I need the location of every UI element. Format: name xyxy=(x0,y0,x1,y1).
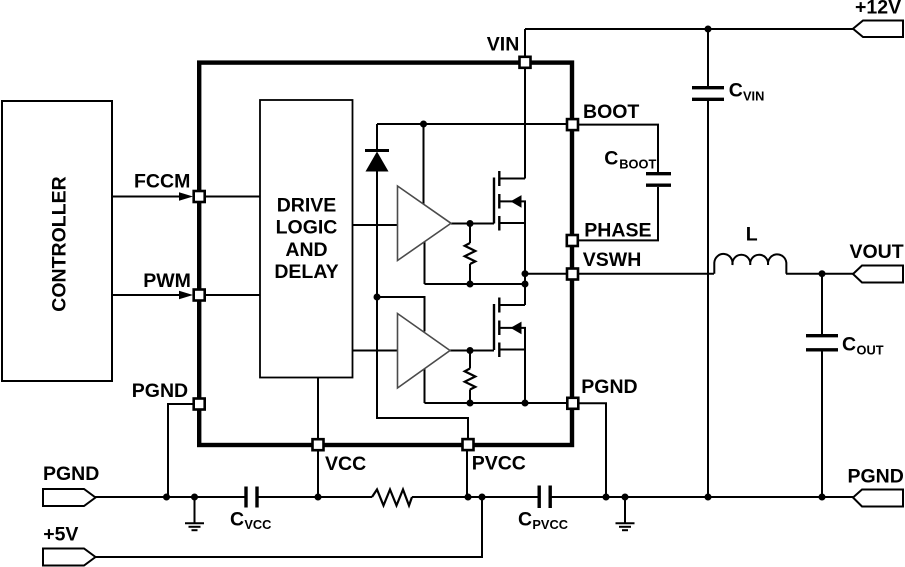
svg-text:VIN: VIN xyxy=(743,88,764,103)
svg-text:DELAY: DELAY xyxy=(274,261,338,283)
svg-text:L: L xyxy=(746,223,758,245)
svg-text:PGND: PGND xyxy=(848,466,904,488)
svg-text:VSWH: VSWH xyxy=(583,249,642,271)
svg-text:C: C xyxy=(842,334,856,356)
svg-text:OUT: OUT xyxy=(857,342,884,357)
svg-text:PWM: PWM xyxy=(143,270,191,292)
svg-text:CONTROLLER: CONTROLLER xyxy=(49,176,71,311)
svg-text:PGND: PGND xyxy=(581,376,637,398)
svg-text:DRIVE: DRIVE xyxy=(277,194,337,216)
svg-text:C: C xyxy=(604,148,618,170)
svg-text:PVCC: PVCC xyxy=(472,452,526,474)
svg-text:C: C xyxy=(230,508,244,530)
svg-text:BOOT: BOOT xyxy=(583,101,639,123)
svg-text:+5V: +5V xyxy=(43,524,78,546)
svg-text:VCC: VCC xyxy=(244,517,271,532)
svg-text:PGND: PGND xyxy=(43,463,99,485)
svg-text:VOUT: VOUT xyxy=(850,241,904,263)
svg-text:AND: AND xyxy=(285,239,327,261)
svg-text:VIN: VIN xyxy=(487,34,520,56)
svg-text:PVCC: PVCC xyxy=(532,517,568,532)
svg-text:BOOT: BOOT xyxy=(619,156,656,171)
svg-text:+12V: +12V xyxy=(855,0,901,18)
svg-text:FCCM: FCCM xyxy=(134,170,190,192)
svg-text:VCC: VCC xyxy=(325,453,366,475)
svg-text:PGND: PGND xyxy=(132,380,188,402)
svg-text:LOGIC: LOGIC xyxy=(276,217,338,239)
svg-text:C: C xyxy=(729,79,743,101)
svg-text:C: C xyxy=(518,508,532,530)
svg-text:PHASE: PHASE xyxy=(584,219,651,241)
